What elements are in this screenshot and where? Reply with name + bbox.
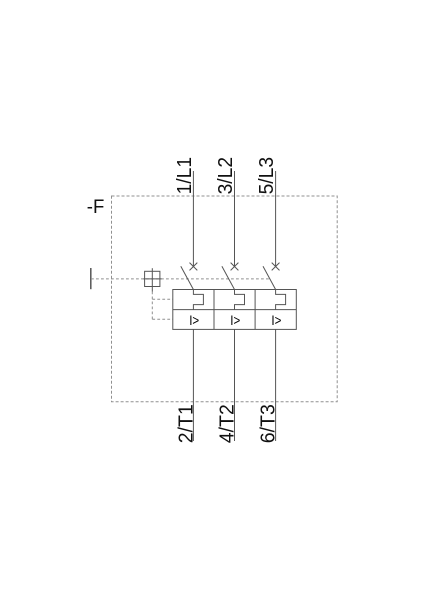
wire dashed branch to thermal release — [152, 298, 173, 300]
svg-text:I>: I> — [271, 312, 281, 328]
release block middle divider — [173, 309, 296, 311]
svg-text:I>: I> — [230, 312, 240, 328]
wire dashed link square to releases vertical — [151, 292, 153, 320]
switch blade pole 2 — [222, 266, 235, 289]
handle (manual operator) — [90, 268, 92, 289]
wire output T1 — [192, 329, 194, 441]
enclosure dashed boundary — [112, 196, 338, 402]
contact X pole 1 — [190, 263, 198, 271]
contact X pole 3 — [272, 263, 280, 271]
svg-text:1/L1: 1/L1 — [174, 157, 196, 195]
wire input L3 — [275, 171, 277, 267]
actuator crosshair vertical — [151, 268, 153, 291]
wire output T3 — [275, 329, 277, 441]
svg-text:4/T2: 4/T2 — [217, 404, 239, 443]
wire dashed branch to magnetic release — [152, 318, 173, 320]
svg-text:5/L3: 5/L3 — [256, 157, 278, 195]
actuator crosshair horizontal — [144, 278, 162, 280]
wire output T2 — [234, 329, 236, 441]
svg-text:I>: I> — [189, 312, 199, 328]
thermal release hook pole 3 — [276, 290, 286, 310]
svg-text:2/T1: 2/T1 — [175, 404, 197, 443]
release block outline — [173, 290, 296, 330]
wire input L1 — [192, 171, 194, 267]
switch blade pole 1 — [181, 266, 194, 289]
thermal release hook pole 2 — [235, 290, 245, 310]
wire mechanical link dashed horizontal — [91, 278, 270, 280]
svg-text:6/T3: 6/T3 — [258, 404, 280, 443]
thermal release hook pole 1 — [193, 290, 203, 310]
svg-text:-F: -F — [87, 196, 105, 218]
release block divider 1 — [213, 290, 215, 330]
contact X pole 2 — [231, 263, 239, 271]
svg-text:3/L2: 3/L2 — [215, 157, 237, 195]
wire input L2 — [234, 171, 236, 267]
actuator square — [145, 271, 160, 286]
switch blade pole 3 — [263, 266, 276, 289]
release block divider 2 — [254, 290, 256, 330]
